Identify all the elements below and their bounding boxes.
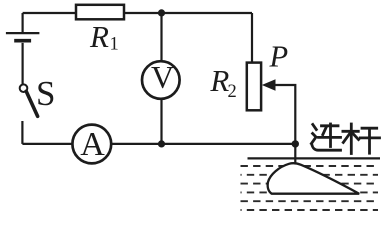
water surface line	[248, 157, 381, 159]
svg-text:R: R	[209, 63, 229, 98]
slider P arrow shaft	[274, 85, 296, 144]
svg-text:S: S	[36, 74, 55, 113]
wire top horizontal	[23, 12, 252, 14]
label 连杆 (connecting rod) char 连	[311, 124, 340, 150]
svg-text:P: P	[269, 40, 289, 74]
slider P arrowhead	[262, 79, 276, 91]
wire switch lower stub	[21, 121, 23, 144]
resistor R1	[76, 5, 124, 19]
wire battery riser	[22, 13, 24, 32]
node junction dot top	[158, 9, 165, 16]
rheostat R2 body	[247, 63, 261, 111]
switch S blade	[26, 91, 37, 116]
voltmeter U1 circle	[142, 61, 180, 99]
node junction dot bottom right	[292, 140, 299, 147]
wire bottom horizontal	[22, 143, 295, 145]
node junction dot bottom middle	[158, 140, 165, 147]
battery cell (short thick plate)	[14, 39, 31, 43]
wire battery to switch	[22, 43, 24, 84]
label 连杆 (connecting rod) char 杆	[343, 124, 380, 154]
water dashed lines	[241, 166, 379, 210]
float (buoy in water)	[268, 163, 360, 194]
switch S pivot	[20, 84, 28, 92]
svg-text:A: A	[80, 126, 105, 163]
wire right vertical to R2	[251, 13, 253, 63]
wire middle vertical (voltmeter branch)	[160, 13, 162, 144]
svg-text:R: R	[89, 19, 109, 54]
ammeter U2 circle	[72, 125, 111, 164]
svg-text:2: 2	[228, 82, 237, 102]
wire junction to float	[294, 144, 296, 165]
svg-text:V: V	[151, 59, 174, 95]
battery cell (long plate)	[6, 32, 40, 34]
svg-text:1: 1	[110, 35, 119, 55]
